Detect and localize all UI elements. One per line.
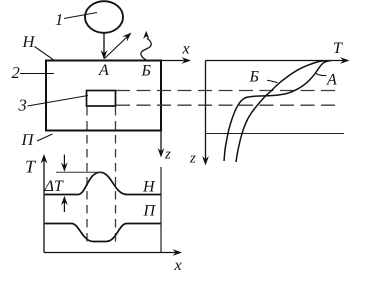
x axis along surface	[161, 60, 188, 62]
specimen rectangle	[46, 61, 161, 131]
reflected ray arrow	[105, 36, 129, 59]
incident ray arrow	[103, 34, 105, 55]
curve П (back surface temperature)	[45, 224, 161, 242]
svg-text:1: 1	[55, 10, 63, 29]
curve Н (front surface temperature)	[45, 172, 161, 194]
leader П	[37, 134, 53, 141]
defect rectangle 3	[87, 91, 116, 107]
right boundary of bottom graph	[160, 167, 162, 253]
back surface line (right graph)	[206, 133, 345, 135]
leader 3	[28, 96, 89, 107]
svg-text:Т: Т	[333, 40, 343, 57]
T axis (horizontal, right graph)	[206, 60, 347, 62]
dashed horizontal line (defect bottom depth)	[116, 104, 338, 106]
svg-text:П: П	[21, 130, 35, 149]
svg-text:ΔT: ΔT	[44, 178, 64, 195]
leader Н	[35, 47, 54, 60]
leader from 1 to circle	[64, 13, 97, 19]
svg-text:Н: Н	[142, 179, 156, 196]
peak reference line	[56, 171, 103, 173]
ΔT lower dimension arrow	[63, 201, 65, 212]
svg-text:2: 2	[12, 63, 20, 82]
leader 2	[20, 73, 54, 75]
svg-text:А: А	[98, 62, 109, 79]
T axis (vertical, bottom graph)	[43, 159, 45, 253]
svg-text:А: А	[326, 72, 337, 89]
svg-text:x: x	[182, 41, 190, 58]
svg-text:x: x	[174, 257, 182, 274]
wavy emission arrow at Б	[141, 38, 151, 60]
svg-text:z: z	[164, 147, 171, 163]
curve Б (defect-free)	[236, 61, 328, 162]
svg-text:z: z	[189, 151, 196, 167]
leader А curve	[315, 73, 327, 76]
svg-text:Н: Н	[22, 32, 36, 51]
curve А (over defect)	[224, 61, 331, 161]
heat source circle 1	[85, 1, 123, 33]
leader Б curve	[267, 80, 278, 82]
dashed horizontal line (defect top depth)	[116, 90, 338, 92]
dashed vertical line right (defect right edge)	[115, 107, 117, 247]
z axis (vertical, right graph)	[205, 61, 207, 162]
svg-text:Б: Б	[141, 63, 152, 80]
svg-text:Б: Б	[249, 69, 260, 86]
svg-text:П: П	[143, 203, 157, 220]
dashed vertical line left (defect left edge)	[86, 107, 88, 247]
x axis (bottom graph)	[44, 252, 179, 254]
ΔT upper dimension arrow	[63, 155, 65, 167]
svg-text:3: 3	[18, 96, 27, 115]
z axis under specimen	[160, 131, 162, 153]
